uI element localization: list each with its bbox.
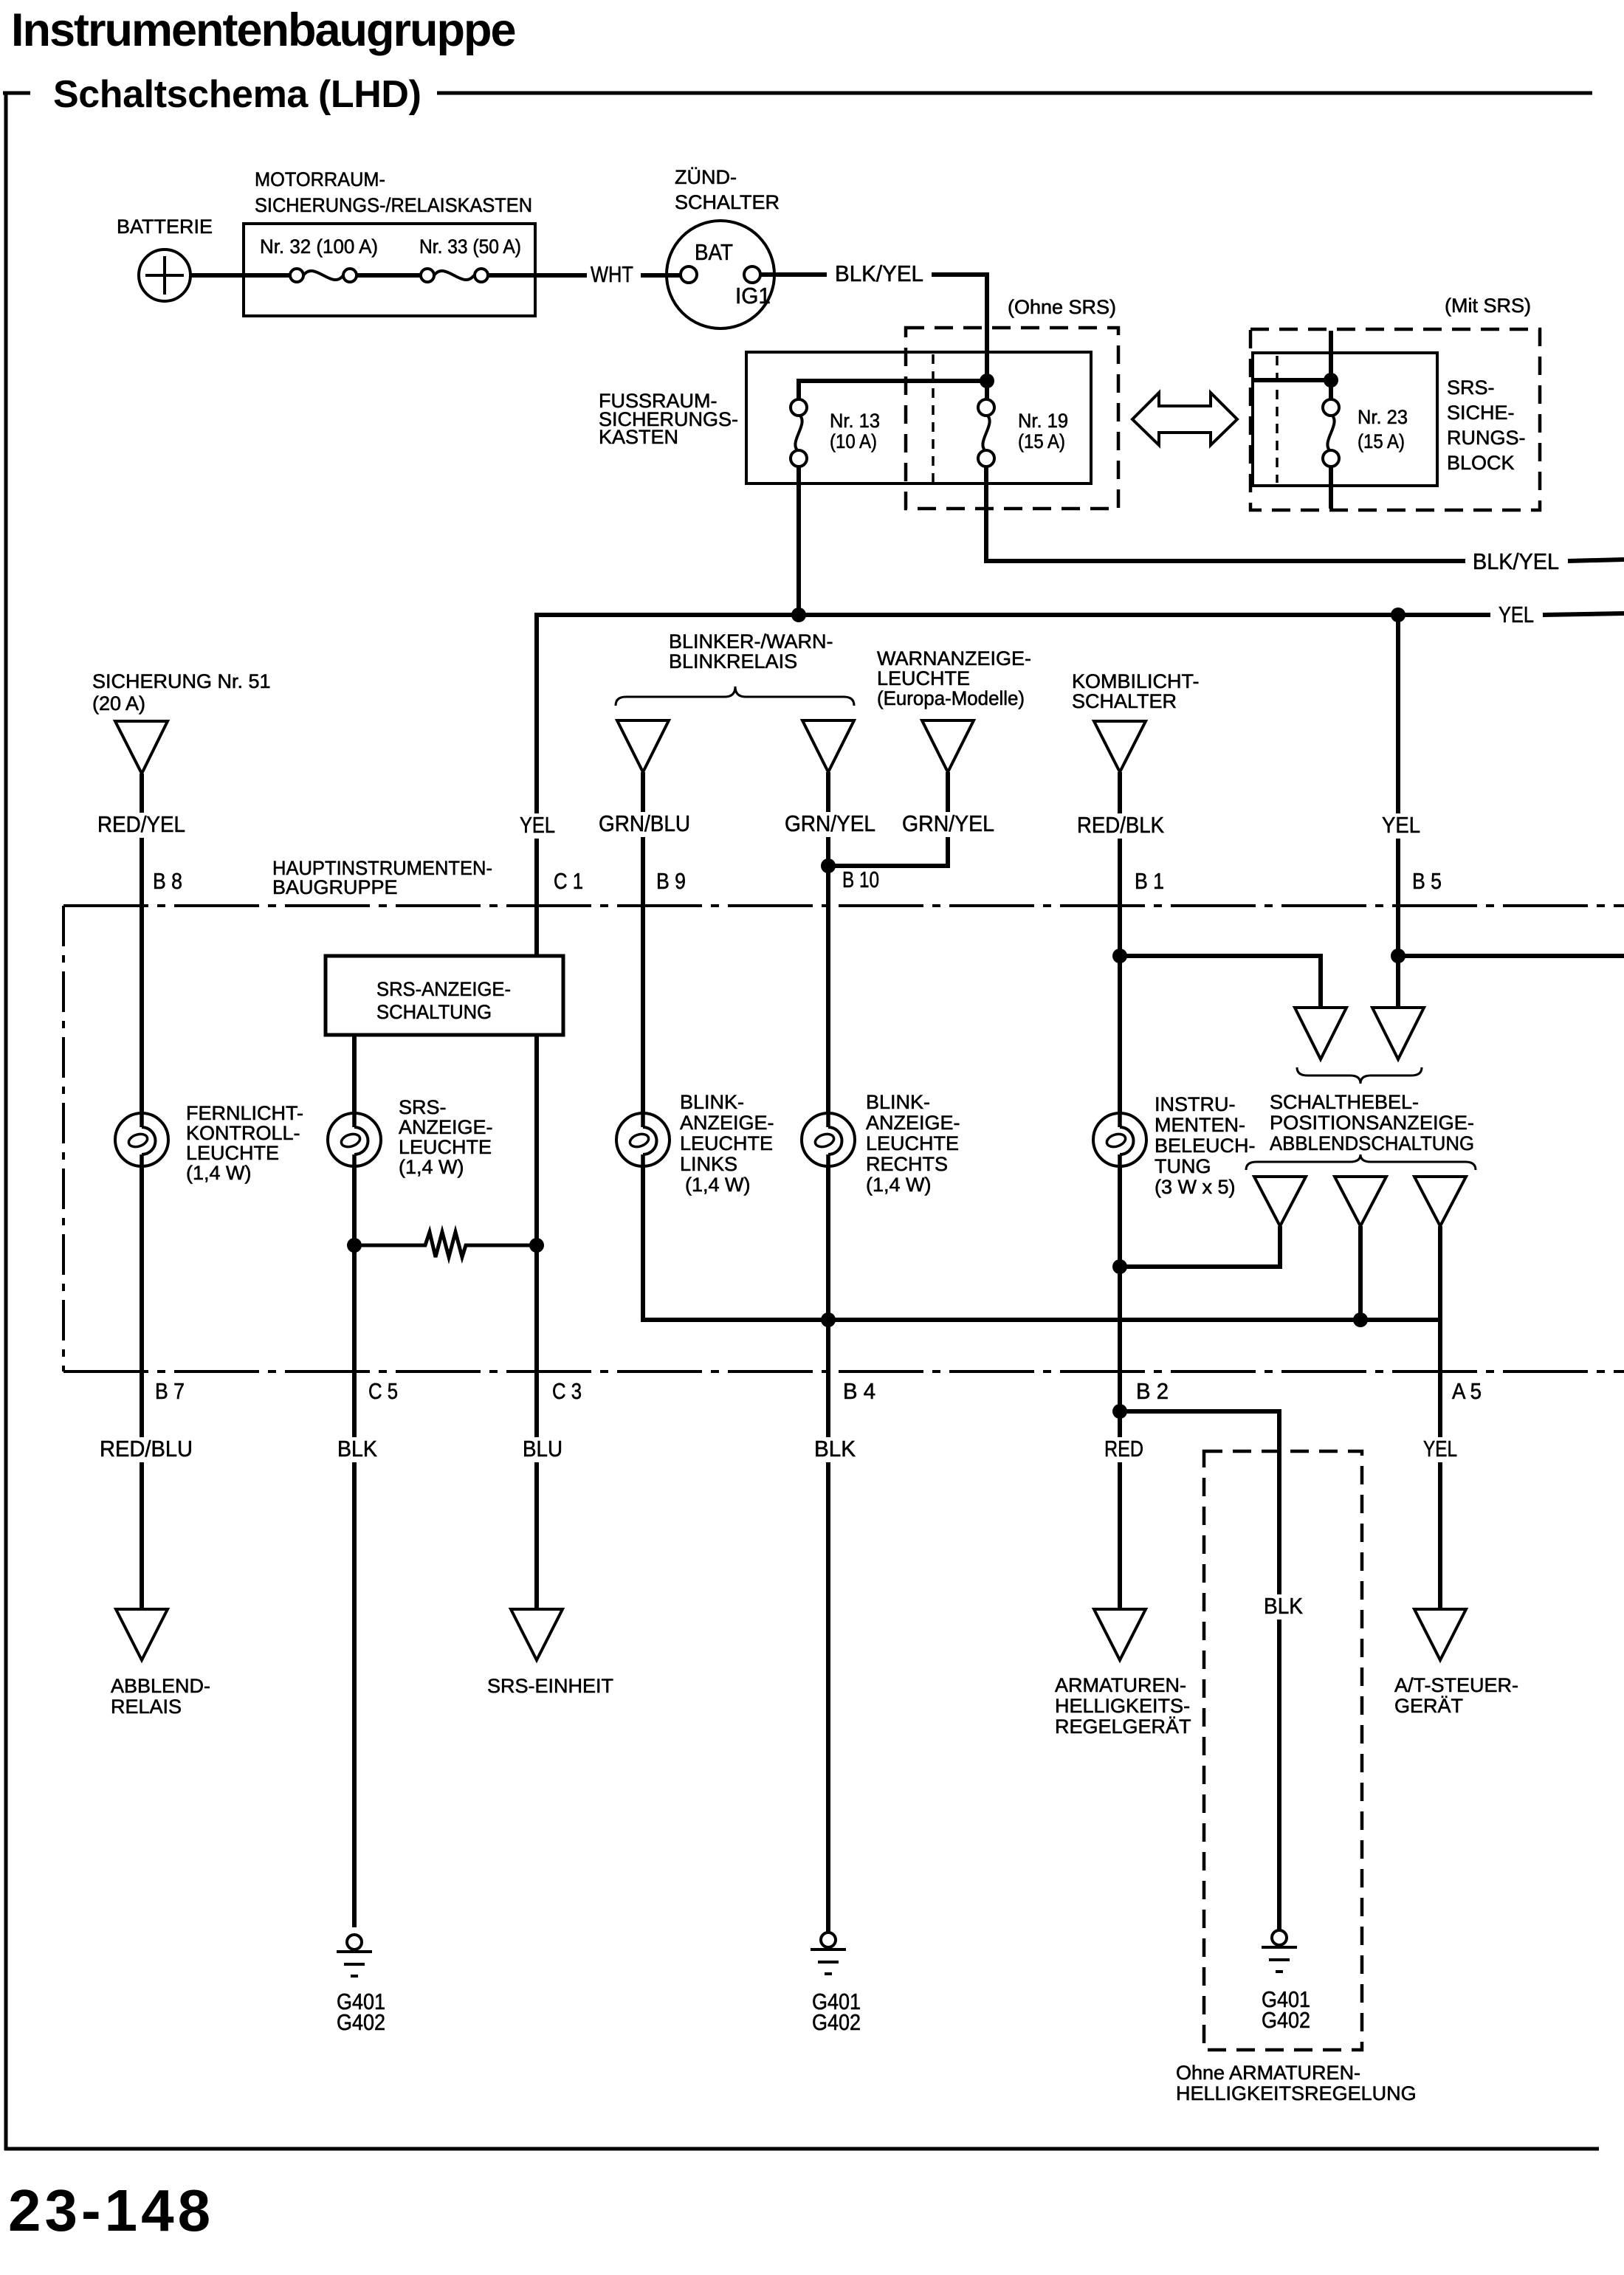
svg-text:BLOCK: BLOCK xyxy=(1447,452,1515,474)
wire label GRN/YEL Europa xyxy=(898,812,998,837)
wire GRN/YEL B10 column xyxy=(826,772,830,1932)
svg-text:(3 W x 5): (3 W x 5) xyxy=(1155,1176,1236,1198)
svg-text:RECHTS: RECHTS xyxy=(866,1153,948,1175)
wire B1 junction to lever triangle 1 xyxy=(1120,956,1321,1008)
svg-text:ZÜND-: ZÜND- xyxy=(675,166,737,188)
wire label BLK dimmerless xyxy=(1260,1594,1307,1620)
svg-text:WARNANZEIGE-: WARNANZEIGE- xyxy=(877,647,1031,670)
wire label RED B2 xyxy=(1101,1437,1147,1462)
fuse Nr.33 xyxy=(434,271,474,280)
svg-text:(15 A): (15 A) xyxy=(1018,430,1065,452)
wire YEL to page edge xyxy=(1543,613,1624,615)
svg-text:SRS-ANZEIGE-: SRS-ANZEIGE- xyxy=(376,978,511,1000)
svg-text:(20 A): (20 A) xyxy=(92,692,145,715)
ignition terminal BAT xyxy=(681,266,697,283)
svg-text:LEUCHTE: LEUCHTE xyxy=(399,1136,492,1158)
svg-text:(1,4 W): (1,4 W) xyxy=(399,1156,464,1178)
wire label GRN/BLU xyxy=(595,812,694,837)
svg-text:BLK: BLK xyxy=(337,1436,377,1462)
svg-text:SCHALTER: SCHALTER xyxy=(1072,690,1177,712)
wire label YEL B5 xyxy=(1378,813,1424,839)
frame header line xyxy=(437,92,1592,95)
svg-text:C 5: C 5 xyxy=(368,1378,398,1404)
engine fuse/relay box xyxy=(244,224,535,316)
svg-text:Ohne ARMATUREN-: Ohne ARMATUREN- xyxy=(1176,2062,1360,2084)
svg-text:KONTROLL-: KONTROLL- xyxy=(186,1122,300,1144)
wire WHT to ignition xyxy=(641,273,681,278)
svg-text:GRN/YEL: GRN/YEL xyxy=(902,810,994,836)
SRS fuse block solid box xyxy=(1253,353,1437,486)
wire SRS box left leg C5 column xyxy=(352,1035,357,1927)
svg-text:SCHALTER: SCHALTER xyxy=(675,191,780,213)
svg-text:SRS-: SRS- xyxy=(1447,376,1495,399)
svg-text:C 1: C 1 xyxy=(554,868,583,894)
svg-text:SRS-: SRS- xyxy=(399,1096,447,1118)
svg-text:(Europa-Modelle): (Europa-Modelle) xyxy=(877,687,1025,709)
svg-text:SICHERUNG Nr. 51: SICHERUNG Nr. 51 xyxy=(92,670,271,692)
wire fuse Nr.19 down and right (BLK/YEL bus) xyxy=(986,467,1465,561)
svg-text:HELLIGKEITSREGELUNG: HELLIGKEITSREGELUNG xyxy=(1176,2082,1417,2104)
svg-text:RED/BLU: RED/BLU xyxy=(100,1436,193,1462)
lever position connector triangle upper 2 xyxy=(1372,1008,1424,1059)
svg-text:Nr. 33 (50 A): Nr. 33 (50 A) xyxy=(419,235,521,258)
svg-text:YEL: YEL xyxy=(1382,812,1420,838)
svg-text:A 5: A 5 xyxy=(1452,1378,1482,1404)
svg-text:YEL: YEL xyxy=(1499,602,1534,627)
fuse Nr.23 xyxy=(1327,414,1334,452)
lever position connector triangle lower 2 xyxy=(1335,1177,1386,1226)
svg-text:IG1: IG1 xyxy=(735,283,771,309)
frame bottom edge xyxy=(4,2147,1599,2151)
svg-text:BLINK-: BLINK- xyxy=(866,1091,930,1113)
wire fuse Nr.23 to dashed bottom xyxy=(1329,467,1333,509)
ground C5 column xyxy=(347,1935,362,1949)
svg-text:B 2: B 2 xyxy=(1136,1378,1169,1404)
svg-text:SICHE-: SICHE- xyxy=(1447,402,1515,424)
svg-text:ABBLENDSCHALTUNG: ABBLENDSCHALTUNG xyxy=(1270,1132,1474,1154)
node resistor right junction xyxy=(529,1238,544,1253)
svg-text:BLK: BLK xyxy=(1264,1593,1303,1619)
left turn indicator bulb B9 xyxy=(616,1113,670,1166)
svg-text:POSITIONSANZEIGE-: POSITIONSANZEIGE- xyxy=(1270,1112,1474,1134)
fuse Nr.51 connector triangle xyxy=(115,721,168,774)
dashed box Ohne SRS xyxy=(906,328,1118,509)
node bus/B10 junction xyxy=(821,1312,836,1327)
svg-text:ANZEIGE-: ANZEIGE- xyxy=(680,1112,774,1134)
wire label BLK C5 xyxy=(334,1437,381,1462)
wire RED/YEL B8 column xyxy=(140,774,144,1608)
svg-text:REGELGERÄT: REGELGERÄT xyxy=(1055,1715,1191,1738)
ground dimmerless branch xyxy=(1272,1930,1287,1945)
svg-text:G402: G402 xyxy=(812,2009,861,2035)
node B5 junction xyxy=(1391,949,1405,963)
svg-text:TUNG: TUNG xyxy=(1155,1155,1211,1177)
ignition terminal IG1 xyxy=(744,266,760,283)
wire label RED/BLU xyxy=(96,1437,196,1462)
wire junction to fuse Nr.13 xyxy=(799,381,987,399)
svg-text:SCHALTHEBEL-: SCHALTHEBEL- xyxy=(1270,1091,1419,1113)
light switch connector triangle B1 xyxy=(1094,721,1146,772)
frame top-left stub xyxy=(3,92,30,95)
wire B5 junction to lever triangle 2 xyxy=(1396,956,1400,1008)
brace under upper lever triangles xyxy=(1297,1067,1422,1084)
right turn indicator bulb B10 xyxy=(802,1113,855,1166)
wire GRN/YEL Europa column xyxy=(828,772,948,866)
svg-text:BLU: BLU xyxy=(523,1436,562,1462)
svg-text:BELEUCH-: BELEUCH- xyxy=(1155,1135,1256,1157)
relay connector triangle B10 xyxy=(802,720,854,772)
wire GRN/BLU B9 column xyxy=(643,772,1440,1320)
svg-text:BLINKER-/WARN-: BLINKER-/WARN- xyxy=(669,630,833,653)
fuse Nr.19 xyxy=(983,414,989,452)
wire label BLK B4 xyxy=(811,1437,859,1462)
resistor between C5 and C3 legs xyxy=(354,1232,537,1257)
lever position connector triangle lower 1 xyxy=(1254,1177,1306,1226)
svg-text:LEUCHTE: LEUCHTE xyxy=(680,1132,773,1154)
svg-text:BLINKRELAIS: BLINKRELAIS xyxy=(669,650,797,672)
svg-text:LEUCHTE: LEUCHTE xyxy=(866,1132,959,1154)
wire YEL B5 column xyxy=(1396,615,1400,1008)
svg-text:G402: G402 xyxy=(1262,2007,1310,2033)
svg-text:RELAIS: RELAIS xyxy=(111,1696,182,1718)
dashed box no-dimmer variant xyxy=(1204,1451,1362,2050)
wire into SRS fuse block xyxy=(1251,378,1331,382)
node resistor left junction xyxy=(347,1238,362,1253)
dash-dot connector boundary lower xyxy=(63,1370,1624,1373)
svg-text:ANZEIGE-: ANZEIGE- xyxy=(399,1116,493,1138)
svg-text:GRN/BLU: GRN/BLU xyxy=(599,810,690,836)
wire lower triangle 3 A5 column xyxy=(1438,1226,1442,1608)
svg-text:YEL: YEL xyxy=(1423,1436,1457,1462)
wire lower triangle 1 to instrument bulb column xyxy=(1120,1226,1280,1267)
svg-text:GERÄT: GERÄT xyxy=(1394,1695,1463,1717)
svg-text:B 8: B 8 xyxy=(153,868,182,894)
wire label YEL A5 xyxy=(1420,1437,1461,1462)
svg-text:ARMATUREN-: ARMATUREN- xyxy=(1055,1674,1186,1696)
svg-text:(Ohne SRS): (Ohne SRS) xyxy=(1008,296,1116,318)
svg-text:ABBLEND-: ABBLEND- xyxy=(111,1675,210,1697)
node YEL/B5 junction xyxy=(1391,608,1405,622)
wire label YEL C1 xyxy=(516,813,559,839)
node B2 junction xyxy=(1112,1404,1127,1419)
svg-text:SCHALTUNG: SCHALTUNG xyxy=(376,1001,492,1023)
svg-text:RUNGS-: RUNGS- xyxy=(1447,427,1526,449)
svg-text:Nr. 13: Nr. 13 xyxy=(830,410,880,432)
svg-text:KOMBILICHT-: KOMBILICHT- xyxy=(1072,670,1200,692)
node junction above fuse Nr.19 xyxy=(980,374,994,388)
ignition switch xyxy=(667,221,774,328)
svg-text:B 9: B 9 xyxy=(656,868,686,894)
battery symbol xyxy=(139,249,190,301)
dashed box Mit SRS xyxy=(1250,329,1540,510)
svg-text:ANZEIGE-: ANZEIGE- xyxy=(866,1112,960,1134)
wire junction to fuse Nr.19 xyxy=(985,381,989,399)
svg-text:23-148: 23-148 xyxy=(8,2178,214,2243)
node instrument bulb lower junction xyxy=(1112,1259,1127,1274)
wire fuse Nr.13 down to YEL bus xyxy=(796,467,801,615)
svg-text:A/T-STEUER-: A/T-STEUER- xyxy=(1394,1674,1518,1696)
ground B4 column xyxy=(821,1932,836,1947)
svg-text:BAT: BAT xyxy=(695,239,733,265)
fuse Nr.13 xyxy=(795,414,802,452)
svg-text:Nr. 23: Nr. 23 xyxy=(1358,406,1408,428)
SRS indicator circuit box xyxy=(326,956,563,1035)
svg-text:LEUCHTE: LEUCHTE xyxy=(877,667,970,689)
svg-text:(1,4 W): (1,4 W) xyxy=(685,1174,751,1196)
svg-text:BATTERIE: BATTERIE xyxy=(117,216,213,238)
svg-text:(1,4 W): (1,4 W) xyxy=(866,1174,932,1196)
svg-text:C 3: C 3 xyxy=(552,1378,582,1404)
inner dashed connector line xyxy=(932,354,935,482)
svg-text:RED/YEL: RED/YEL xyxy=(97,811,185,837)
node B1 upper junction xyxy=(1112,949,1127,963)
inner dashed connector line Mit SRS xyxy=(1276,356,1279,483)
wire battery to fuse box xyxy=(189,273,298,278)
svg-text:Nr. 32 (100 A): Nr. 32 (100 A) xyxy=(260,235,378,258)
svg-text:(10 A): (10 A) xyxy=(830,430,877,452)
svg-text:(15 A): (15 A) xyxy=(1358,430,1405,452)
wire SRS box right leg C3 column xyxy=(534,1035,539,1608)
frame left edge xyxy=(4,92,8,2150)
wire between fuses xyxy=(350,273,427,278)
svg-text:RED/BLK: RED/BLK xyxy=(1077,812,1164,838)
wire RED/BLK B1 column xyxy=(1118,772,1122,1608)
svg-text:SICHERUNGS-/RELAISKASTEN: SICHERUNGS-/RELAISKASTEN xyxy=(255,194,532,216)
svg-text:B 7: B 7 xyxy=(155,1378,185,1404)
node fuse13/YEL junction xyxy=(791,608,806,622)
high beam indicator bulb xyxy=(115,1113,168,1166)
svg-text:BLK/YEL: BLK/YEL xyxy=(835,261,923,286)
node B10/Europa junction xyxy=(821,858,836,873)
svg-text:MENTEN-: MENTEN- xyxy=(1155,1114,1245,1136)
footwell fuse box xyxy=(746,352,1091,483)
svg-text:BLK: BLK xyxy=(814,1436,856,1462)
svg-text:LEUCHTE: LEUCHTE xyxy=(186,1142,279,1164)
wire lower triangle 2 to bus xyxy=(1358,1226,1363,1320)
instrument lighting bulb B1 xyxy=(1093,1113,1146,1166)
wire BLK/YEL into fuse box, down to junction xyxy=(932,275,987,381)
svg-text:BLINK-: BLINK- xyxy=(680,1091,744,1113)
brace over relay triangles xyxy=(616,686,854,706)
wire B2 junction to dashed ground branch xyxy=(1120,1411,1279,1930)
svg-text:KASTEN: KASTEN xyxy=(599,426,678,448)
output arrow to SRS unit xyxy=(511,1609,562,1660)
warning lamp connector triangle xyxy=(922,720,974,772)
svg-text:(Mit SRS): (Mit SRS) xyxy=(1445,295,1531,317)
svg-text:BLK/YEL: BLK/YEL xyxy=(1473,548,1559,574)
svg-text:BAUGRUPPE: BAUGRUPPE xyxy=(272,876,398,898)
wire B5 junction to page edge xyxy=(1398,954,1624,958)
svg-text:Instrumentenbaugruppe: Instrumentenbaugruppe xyxy=(11,4,515,56)
svg-text:GRN/YEL: GRN/YEL xyxy=(785,810,875,836)
svg-text:B 1: B 1 xyxy=(1135,868,1164,894)
node bus/triangle2 junction xyxy=(1353,1312,1368,1327)
relay connector triangle B9 xyxy=(617,720,669,772)
svg-text:WHT: WHT xyxy=(591,261,633,287)
svg-text:LINKS: LINKS xyxy=(680,1153,737,1175)
svg-text:Schaltschema (LHD): Schaltschema (LHD) xyxy=(53,73,421,116)
svg-text:G402: G402 xyxy=(337,2009,385,2035)
svg-text:RED: RED xyxy=(1104,1436,1143,1462)
fuse Nr.32 xyxy=(303,271,343,280)
dash-dot left edge of instrument box xyxy=(62,906,65,1371)
svg-text:B 10: B 10 xyxy=(842,867,879,892)
svg-text:SRS-EINHEIT: SRS-EINHEIT xyxy=(487,1675,613,1697)
output arrow to A/T control unit xyxy=(1414,1609,1466,1660)
svg-text:Nr. 19: Nr. 19 xyxy=(1018,410,1068,432)
svg-text:INSTRU-: INSTRU- xyxy=(1155,1093,1236,1115)
wire label BLU C3 xyxy=(519,1437,566,1462)
wire IG1 to BLK/YEL xyxy=(760,272,827,277)
lever position connector triangle lower 3 xyxy=(1414,1177,1466,1226)
svg-text:(1,4 W): (1,4 W) xyxy=(186,1162,252,1184)
wire label RED/YEL xyxy=(94,813,189,838)
svg-text:FERNLICHT-: FERNLICHT- xyxy=(186,1102,303,1124)
svg-text:HELLIGKEITS-: HELLIGKEITS- xyxy=(1055,1695,1190,1717)
dash-dot connector boundary upper xyxy=(63,904,1624,907)
node junction above fuse Nr.23 xyxy=(1324,373,1338,388)
svg-text:YEL: YEL xyxy=(520,812,555,838)
double arrow between fuse alternatives xyxy=(1132,393,1237,445)
svg-text:B 5: B 5 xyxy=(1412,868,1442,894)
lever position connector triangle upper 1 xyxy=(1295,1008,1346,1059)
svg-text:B 4: B 4 xyxy=(843,1378,875,1404)
output arrow to dash brightness controller xyxy=(1094,1609,1146,1660)
wire fuse33 to WHT xyxy=(481,273,587,278)
output arrow to dip relay xyxy=(116,1609,168,1660)
SRS indicator bulb xyxy=(328,1113,381,1166)
brace over lower lever triangles xyxy=(1246,1154,1476,1170)
wire label RED/BLK xyxy=(1073,813,1168,839)
wire label GRN/YEL B10 xyxy=(781,812,879,837)
svg-text:MOTORRAUM-: MOTORRAUM- xyxy=(255,168,385,190)
wire BLK/YEL to page edge xyxy=(1568,560,1624,561)
YEL bus horizontal xyxy=(537,615,1490,956)
wire down from dashed top to junction xyxy=(1329,331,1333,380)
wire junction to fuse Nr.23 xyxy=(1329,380,1333,399)
